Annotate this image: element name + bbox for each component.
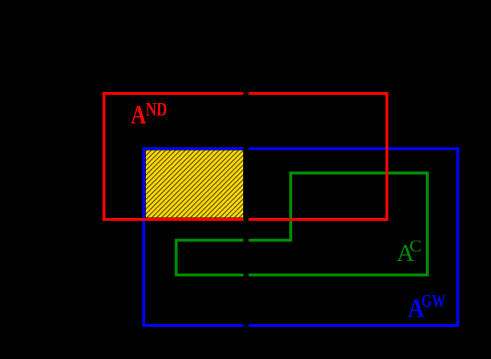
set A^GW rectangle (blue) bbox=[144, 149, 458, 326]
svg-text:A: A bbox=[131, 100, 147, 130]
set A^ND rectangle (red) bbox=[104, 93, 387, 219]
dashed black vertical guide line (overdraws coloured lines) bbox=[243, 85, 248, 332]
svg-text:ND: ND bbox=[146, 101, 168, 121]
svg-text:C: C bbox=[409, 237, 421, 256]
hatched intersection region (yellow) bbox=[146, 150, 243, 217]
set A^C step polygon (green) bbox=[176, 173, 427, 275]
svg-text:GW: GW bbox=[421, 291, 445, 311]
